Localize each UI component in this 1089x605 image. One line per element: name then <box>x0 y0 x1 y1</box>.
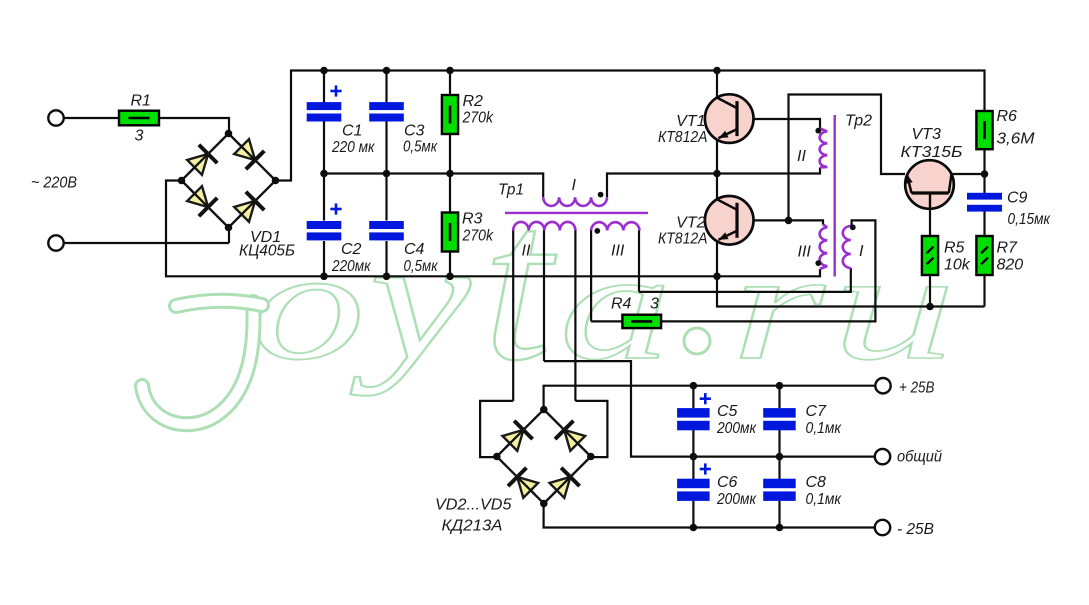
svg-text:VT2: VT2 <box>676 214 705 231</box>
svg-text:R3: R3 <box>462 211 483 228</box>
svg-text:270k: 270k <box>462 228 494 245</box>
svg-text:VT1: VT1 <box>676 113 705 130</box>
svg-text:270k: 270k <box>462 109 494 126</box>
svg-text:C7: C7 <box>806 403 828 420</box>
svg-text:R6: R6 <box>997 108 1018 125</box>
svg-text:R4: R4 <box>611 296 632 313</box>
svg-text:C6: C6 <box>717 474 738 491</box>
svg-text:КТ812А: КТ812А <box>658 129 708 146</box>
svg-text:10k: 10k <box>944 257 971 274</box>
svg-text:200мк: 200мк <box>716 491 757 508</box>
svg-text:Тр2: Тр2 <box>845 113 872 130</box>
svg-text:C8: C8 <box>806 474 827 491</box>
svg-text:C5: C5 <box>717 403 738 420</box>
svg-text:C9: C9 <box>1007 190 1028 207</box>
svg-text:I: I <box>859 243 864 260</box>
svg-text:0,5мк: 0,5мк <box>403 139 438 156</box>
svg-text:Тр1: Тр1 <box>498 182 524 199</box>
svg-text:0,1мк: 0,1мк <box>806 420 843 437</box>
svg-text:220мк: 220мк <box>331 258 372 275</box>
svg-text:R1: R1 <box>131 93 151 110</box>
svg-text:VD2...VD5: VD2...VD5 <box>435 497 512 514</box>
svg-text:КЦ405Б: КЦ405Б <box>239 243 295 260</box>
svg-text:III: III <box>611 243 625 260</box>
svg-text:C4: C4 <box>404 241 425 258</box>
svg-text:200мк: 200мк <box>716 420 757 437</box>
svg-text:КД213А: КД213А <box>442 518 503 535</box>
svg-text:III: III <box>798 243 812 260</box>
svg-text:КТ812А: КТ812А <box>658 230 708 247</box>
svg-text:C2: C2 <box>341 241 362 258</box>
svg-text:+ 25В: + 25В <box>899 380 935 397</box>
svg-text:3: 3 <box>650 296 659 313</box>
svg-text:0,1мк: 0,1мк <box>806 491 843 508</box>
svg-text:II: II <box>797 148 806 165</box>
svg-text:VT3: VT3 <box>912 126 941 143</box>
svg-text:R2: R2 <box>463 93 484 110</box>
svg-text:R5: R5 <box>944 240 965 257</box>
svg-text:I: I <box>572 177 577 194</box>
svg-text:0,15мк: 0,15мк <box>1008 211 1052 228</box>
svg-text:II: II <box>522 243 531 260</box>
svg-text:C3: C3 <box>404 123 425 140</box>
svg-text:820: 820 <box>997 257 1024 274</box>
svg-text:- 25В: - 25В <box>897 521 934 538</box>
svg-text:~ 220В: ~ 220В <box>31 175 77 192</box>
svg-text:3,6М: 3,6М <box>997 131 1036 148</box>
svg-text:КТ315Б: КТ315Б <box>901 144 963 161</box>
svg-text:220 мк: 220 мк <box>331 139 376 156</box>
svg-text:R7: R7 <box>997 240 1019 257</box>
svg-text:0,5мк: 0,5мк <box>404 258 439 275</box>
svg-text:общий: общий <box>897 449 942 466</box>
svg-text:3: 3 <box>135 128 144 145</box>
svg-text:C1: C1 <box>342 123 362 140</box>
